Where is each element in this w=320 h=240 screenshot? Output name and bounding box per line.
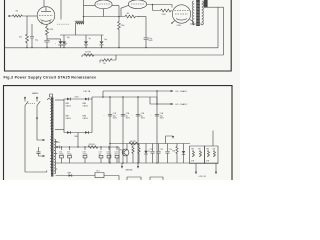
fuse arrow FS1: [36, 118, 38, 121]
connector box D (cropped): [150, 177, 163, 182]
capacitor C2 50u: [30, 24, 38, 48]
wire V2 to node: [84, 5, 96, 7]
wire link R3 node to C4: [47, 39, 61, 41]
wire HT1 rail: [103, 90, 171, 92]
wire B+ row y35: [60, 34, 104, 36]
transformer T2 primary winding lower: [50, 156, 51, 170]
svg-text:33k: 33k: [19, 37, 22, 39]
diode MR7: [67, 131, 70, 134]
junction x152.5: [152, 4, 154, 6]
triode V1: [37, 0, 55, 24]
svg-text:+: +: [55, 43, 56, 45]
node IN terminal: [9, 15, 10, 16]
selector arrow tap2: [43, 155, 46, 157]
wire R2 to bus: [26, 45, 28, 48]
transistor TR1: [120, 144, 129, 164]
wire HT winding top to bridge: [55, 99, 64, 101]
svg-text:+: +: [132, 114, 133, 116]
wire dotted heater run: [57, 23, 70, 25]
wire HT secondary top: [208, 6, 224, 8]
wire x138 column: [137, 97, 139, 163]
capacitor C1B: [104, 113, 118, 119]
diode MR9: [68, 173, 72, 177]
wire bridge - out: [77, 133, 79, 148]
transformer T2 primary winding upper: [48, 99, 52, 129]
resistor R7 lower branch: [100, 55, 116, 65]
svg-text:8µ: 8µ: [89, 38, 91, 40]
tap stub a: [55, 141, 57, 143]
resistor R2: [26, 33, 29, 45]
svg-text:OA210: OA210: [66, 104, 71, 107]
svg-text:HT+ CHAN 1: HT+ CHAN 1: [176, 90, 189, 93]
capacitor C11 8u: [84, 35, 91, 48]
chassis arrow b: [137, 163, 139, 166]
capacitor C12 16u: [99, 35, 107, 48]
transformer T2 primary winding mid: [50, 137, 51, 151]
wire N down: [36, 106, 38, 118]
svg-text:MR9: MR9: [68, 173, 72, 175]
capacitor C10 32u: [62, 35, 70, 48]
svg-text:MAINS: MAINS: [32, 92, 39, 95]
arrow heater: [172, 136, 174, 139]
svg-text:FS1 2A: FS1 2A: [84, 90, 91, 93]
wire stub top x61: [60, 0, 62, 20]
choke L1: [75, 17, 84, 36]
wire bridge + out: [92, 97, 150, 99]
wire V1 anode drop: [46, 24, 48, 25]
junction dots lower: [61, 146, 62, 147]
top panel frame: [5, 0, 232, 71]
svg-text:470k: 470k: [50, 29, 54, 31]
wire screen row y16.5: [84, 16, 126, 18]
common bus y163: [55, 162, 218, 164]
svg-text:HT+ CHAN 2: HT+ CHAN 2: [176, 103, 189, 106]
wire x119 drop: [118, 147, 120, 163]
arrow HT1: [171, 90, 174, 92]
resistor R3: [46, 26, 49, 37]
capacitor C2B: [132, 113, 146, 119]
capacitor C2A: [117, 112, 131, 119]
capacitor C17: [69, 147, 71, 150]
capacitor C20: [108, 147, 110, 150]
wire box B out: [215, 164, 217, 172]
wire x110 column: [109, 97, 111, 163]
rectifier V4 GZ34: [171, 5, 191, 27]
capacitor C16: [61, 147, 63, 150]
zener Z1: [144, 144, 150, 164]
svg-text:5W: 5W: [213, 149, 216, 151]
svg-text:150k: 150k: [121, 25, 125, 27]
capacitor C21: [116, 147, 118, 150]
wire heater takeoff: [166, 136, 174, 144]
svg-text:OA210: OA210: [66, 117, 71, 120]
capacitor C5 0.1u 600V: [144, 38, 154, 48]
capacitor C3: [44, 41, 49, 48]
tap stub c: [55, 168, 57, 170]
switch S1 pole a: [25, 99, 28, 106]
ground bus y47.5: [5, 47, 219, 49]
transformer T2 terminal: [50, 94, 53, 97]
wire LT rail y147: [60, 146, 119, 148]
svg-text:TR1: TR1: [120, 149, 123, 151]
wire V2 anode drop: [103, 9, 105, 17]
svg-text:Z1: Z1: [148, 151, 150, 153]
resistor R34 34R 5W: [129, 141, 139, 145]
wire x146 drop: [145, 17, 147, 38]
wire box A out: [195, 164, 197, 172]
resistor box B: [205, 146, 219, 164]
resistor R21: [132, 144, 134, 164]
wire V2 plate to node x119: [112, 6, 119, 17]
wire x157 column: [156, 91, 158, 163]
capacitor C4 100u polarized: [55, 41, 67, 47]
relay RL1: [95, 171, 119, 180]
wire R3 to C3: [46, 36, 48, 40]
svg-text:16µ: 16µ: [104, 39, 107, 41]
wire drop x217.5: [217, 7, 219, 48]
capacitor C30 suppressor: [36, 147, 42, 156]
resistor R4 4k7: [125, 13, 139, 18]
wire HT to rectifier: [153, 5, 173, 8]
capacitor C23: [156, 144, 163, 164]
transformer T1 hum winding: [204, 0, 208, 8]
terminal L: [24, 97, 25, 98]
svg-text:+: +: [104, 114, 105, 116]
tube V2 (envelope top): [95, 0, 112, 9]
svg-text:32µ: 32µ: [67, 37, 70, 39]
svg-text:50µ: 50µ: [35, 40, 38, 42]
wire relay row y175.5: [56, 175, 96, 177]
transformer T1 core: [196, 0, 200, 26]
capacitor C18: [84, 147, 86, 150]
wire HT2 rail: [157, 103, 171, 105]
resistor R23 22R: [172, 144, 178, 164]
wire x123 column: [122, 97, 124, 163]
wire grid to V1: [26, 15, 37, 17]
wire V3 grid lead: [121, 5, 129, 16]
wire stub top x83.5: [83, 0, 85, 17]
diode MR8: [85, 131, 88, 134]
switch S1 link: [27, 102, 36, 104]
diode MR10: [182, 144, 185, 164]
svg-text:OA210: OA210: [83, 117, 88, 120]
svg-text:6.3V 6.3V: 6.3V 6.3V: [199, 176, 207, 178]
tube V3 (envelope top): [128, 0, 146, 9]
wire row to x146: [138, 16, 146, 18]
wire V3 plate feed: [147, 5, 153, 11]
transformer T2 core: [51, 98, 53, 177]
junction dots on bus: [26, 47, 27, 48]
junction x83.5: [83, 16, 85, 18]
wire x213 drop: [212, 131, 214, 147]
arrow HT2: [171, 103, 174, 105]
switch S1 pole b: [37, 99, 40, 106]
filter cap row C16..C21: [59, 147, 119, 163]
capacitor C22: [150, 144, 155, 164]
svg-text:7R5: 7R5: [191, 149, 194, 151]
wire drop x223.5: [223, 7, 225, 55]
resistor R6 4k7 5W: [84, 52, 94, 57]
arrow out B: [215, 172, 217, 175]
svg-text:5W: 5W: [198, 149, 201, 151]
wire N to selector: [37, 120, 43, 141]
svg-text:+: +: [151, 114, 152, 116]
transformer T1 secondary coil: [202, 1, 204, 25]
regulator rail y143.5: [110, 143, 190, 145]
connector box C (cropped): [127, 177, 141, 182]
resistor R8 150k: [118, 17, 125, 48]
svg-text:MR4: MR4: [75, 136, 79, 138]
svg-text:OA210: OA210: [83, 104, 88, 107]
wire heater row y57.5: [82, 54, 224, 56]
svg-text:CHASSIS: CHASSIS: [125, 168, 133, 171]
resistor R1: [10, 15, 26, 17]
capacitor C19: [100, 147, 102, 150]
transformer T1 primary coil: [193, 1, 194, 25]
link box: [150, 97, 157, 104]
svg-text:7R5: 7R5: [206, 149, 209, 151]
chassis arrow a: [121, 163, 123, 166]
resistor R5 150R: [153, 9, 172, 16]
svg-text:C22: C22: [150, 149, 153, 151]
diode MR3: [55, 146, 56, 148]
wire heater return y24: [190, 24, 202, 25]
resistor R24 24R 5W: [88, 144, 98, 148]
resistor R22: [138, 144, 140, 164]
wire HT winding bot to bridge: [55, 129, 64, 131]
svg-text:+: +: [117, 114, 118, 116]
wire cathode drop: [26, 16, 28, 33]
svg-text:1k5: 1k5: [103, 63, 106, 65]
wire L down loop: [25, 106, 47, 173]
wire V4 to transformer: [190, 20, 194, 26]
svg-text:Fig.3 Power Supply Circuit STA: Fig.3 Power Supply Circuit STA25 Renaiss…: [4, 75, 97, 79]
diode MR6: [85, 98, 88, 101]
transformer T2 secondary winding: [54, 139, 55, 174]
capacitor C1A: [151, 112, 165, 119]
tap stub b: [55, 153, 57, 155]
arrow out A: [195, 172, 197, 175]
svg-text:4k7: 4k7: [127, 13, 130, 15]
wire riser x103: [102, 91, 104, 97]
bridge BR1 frame: [64, 99, 92, 133]
terminal tick left: [81, 55, 83, 57]
terminal N: [36, 97, 37, 98]
selector arrow tap1: [43, 139, 46, 141]
svg-text:MR3: MR3: [56, 142, 60, 144]
resistor box A: [190, 146, 205, 164]
diode MR5: [67, 98, 70, 101]
capacitor C24: [165, 144, 172, 164]
svg-text:GZ34: GZ34: [177, 25, 181, 27]
svg-text:C23: C23: [160, 149, 163, 151]
bottom panel frame: [4, 86, 233, 181]
